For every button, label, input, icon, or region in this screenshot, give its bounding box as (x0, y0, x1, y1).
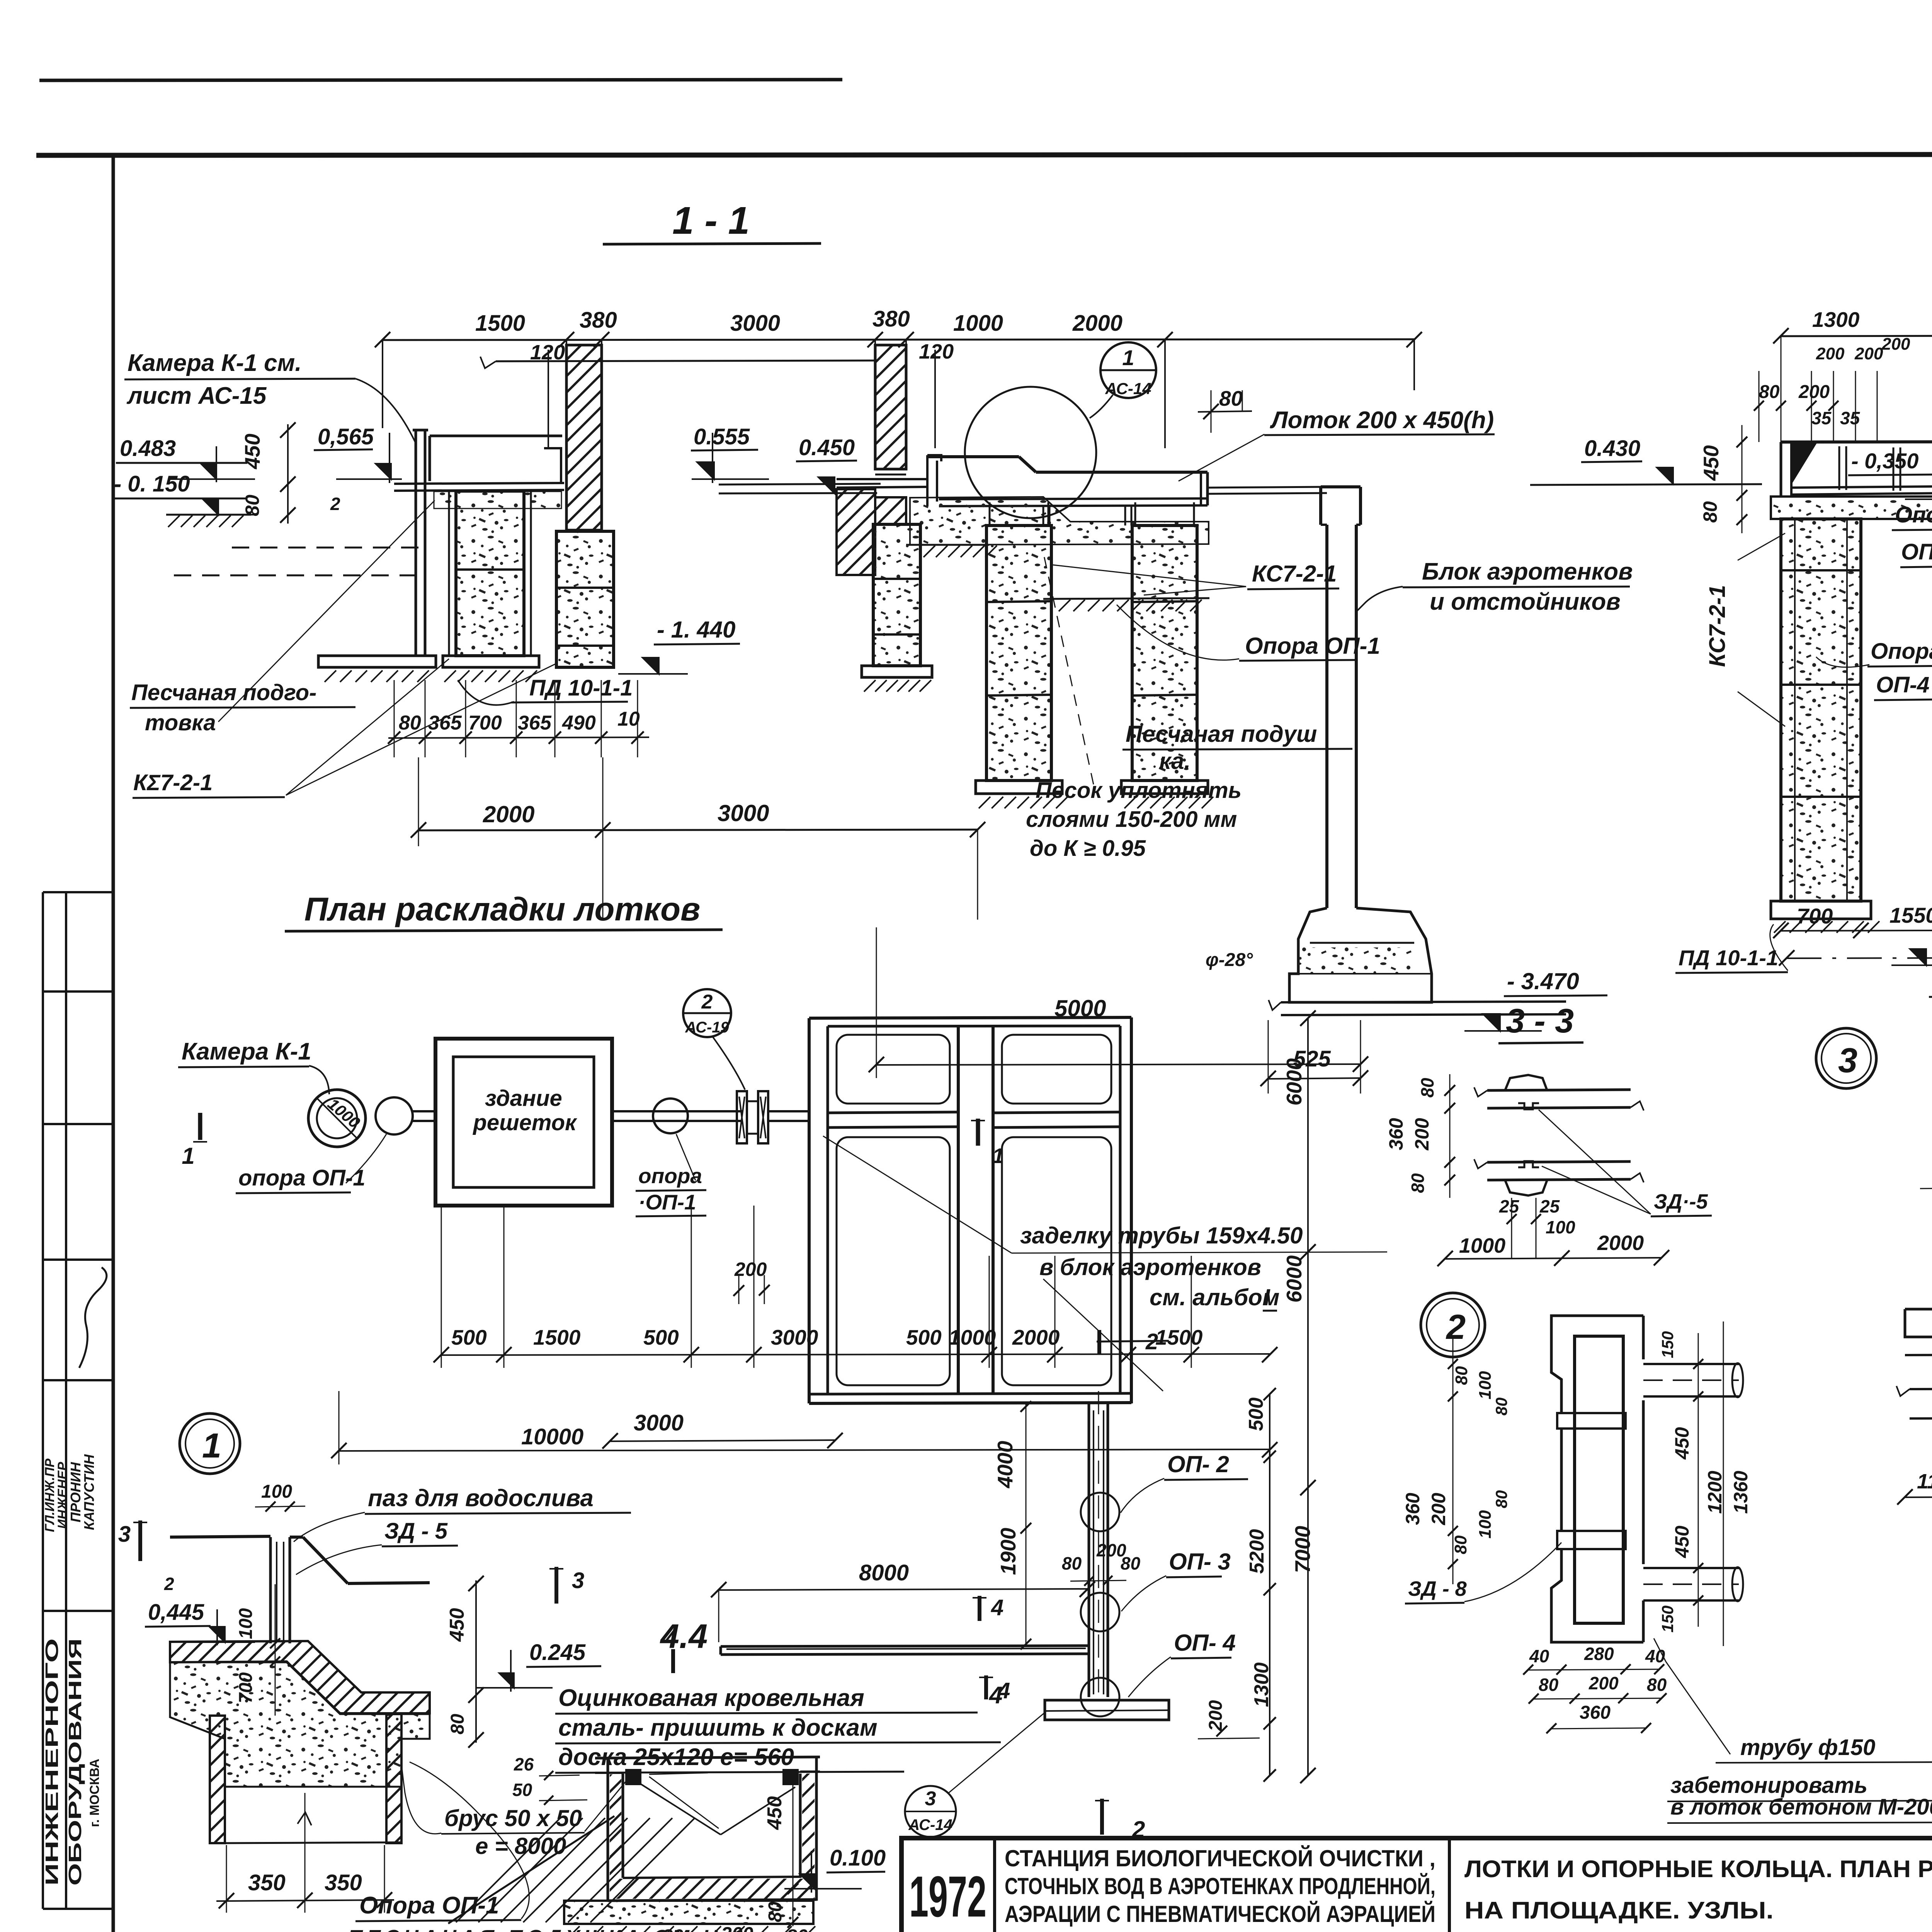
svg-text:- 0,350: - 0,350 (1851, 449, 1918, 473)
detail 1 right hatched wall (386, 1714, 401, 1843)
svg-text:лист АС-15: лист АС-15 (126, 383, 267, 409)
svg-text:1972: 1972 (909, 1864, 986, 1929)
svg-text:сталь- пришить к доскам: сталь- пришить к доскам (558, 1714, 878, 1741)
level mark 0.100 (784, 1845, 886, 1893)
svg-text:40: 40 (1645, 1646, 1665, 1666)
section mark 3 right (549, 1567, 584, 1604)
detail bubble 3 (1816, 1028, 1876, 1088)
section 4-4 title (660, 1617, 707, 1655)
svg-text:80: 80 (662, 1925, 684, 1932)
svg-text:ОП- 4: ОП- 4 (1174, 1630, 1236, 1656)
svg-text:4000: 4000 (993, 1440, 1017, 1488)
detail 1 concrete mass stipple (170, 1662, 430, 1787)
level mark -3.730 (1891, 949, 1932, 997)
section 1-1 top dimension chain (375, 306, 1422, 448)
svg-text:г. МОСКВА: г. МОСКВА (87, 1759, 102, 1827)
svg-text:450: 450 (1671, 1427, 1693, 1460)
channel tee footing (1045, 1700, 1169, 1720)
rotated label КС7-2-1 far left (1705, 533, 1785, 726)
svg-text:Песчаная подуш: Песчаная подуш (1126, 721, 1317, 747)
svg-text:2000: 2000 (483, 801, 534, 827)
svg-text:450: 450 (1671, 1526, 1693, 1558)
svg-text:6000: 6000 (1282, 1058, 1306, 1105)
detail 1 dims 350 350 (216, 1793, 394, 1913)
svg-text:здание: здание (485, 1086, 562, 1111)
svg-text:8000: 8000 (859, 1560, 909, 1585)
brick wall hatched left (566, 345, 602, 530)
detail 1 break mark bottom (225, 1812, 401, 1843)
svg-text:200: 200 (1588, 1673, 1619, 1693)
left stamp text ПРОНИН (68, 1462, 83, 1522)
title block grid (901, 1838, 1932, 1932)
svg-text:2000: 2000 (1597, 1231, 1644, 1255)
svg-text:80: 80 (1408, 1173, 1428, 1193)
svg-text:КΣ7-2-1: КΣ7-2-1 (133, 770, 213, 795)
svg-text:паз для водослива: паз для водослива (368, 1485, 594, 1512)
left stamp signature squiggle (79, 1267, 107, 1368)
svg-text:80: 80 (1062, 1553, 1082, 1573)
svg-text:Опора: Опора (1871, 639, 1932, 664)
label Лоток 200х450 (1179, 407, 1495, 481)
detail bubble 1 (180, 1413, 240, 1474)
slope note phi-28 (1206, 950, 1253, 970)
svg-text:450: 450 (446, 1608, 468, 1642)
label опора ОП-1 left (236, 1134, 386, 1193)
svg-text:2: 2 (701, 991, 713, 1013)
svg-text:ПД 10-1-1: ПД 10-1-1 (1679, 946, 1778, 970)
left stamp text ОБОРУДОВАНИЯ (65, 1638, 85, 1886)
channel width dims 80 200 80 (1062, 1540, 1141, 1586)
level mark -3.470 (1464, 968, 1607, 1031)
svg-text:200: 200 (1798, 382, 1830, 402)
svg-text:350: 350 (248, 1870, 286, 1895)
svg-text:- 1. 440: - 1. 440 (657, 617, 735, 643)
level mark 0.450 (719, 435, 877, 493)
svg-text:3: 3 (118, 1522, 131, 1547)
central support column under wall (862, 524, 932, 692)
svg-text:40: 40 (1529, 1646, 1549, 1666)
level mark 0.555 (691, 424, 769, 483)
svg-text:- 3.470: - 3.470 (1507, 968, 1579, 994)
svg-text:·ОП-1: ·ОП-1 (638, 1190, 696, 1214)
label ОП-2 (1121, 1451, 1248, 1513)
label ЗД-8 (1405, 1543, 1561, 1604)
svg-text:1: 1 (992, 1144, 1004, 1168)
svg-text:ОП- 3: ОП- 3 (1169, 1549, 1231, 1575)
svg-text:200: 200 (721, 1923, 753, 1932)
svg-text:План раскладки лотков: План раскладки лотков (304, 891, 701, 928)
label Опора ОП-3 (1892, 502, 1932, 657)
svg-text:4.4: 4.4 (660, 1617, 707, 1655)
svg-text:80: 80 (1492, 1398, 1510, 1416)
svg-text:80: 80 (1759, 382, 1780, 402)
left stamp text ГЛ.ИНЖ.ПР (43, 1459, 57, 1532)
plan dim 200 small (733, 1259, 770, 1304)
svg-text:1500: 1500 (475, 311, 525, 336)
level mark 0.483 (116, 436, 255, 482)
svg-text:1900: 1900 (996, 1527, 1020, 1575)
pipe building to tank (612, 1099, 743, 1133)
left stamp text КАПУСТИН (81, 1454, 97, 1530)
title block year 1972 (909, 1864, 986, 1929)
svg-text:1: 1 (182, 1143, 194, 1169)
left stamp text г.МОСКВА (87, 1759, 102, 1827)
svg-text:80: 80 (1417, 1078, 1437, 1098)
svg-text:АС-14: АС-14 (1105, 379, 1151, 398)
svg-text:Опора ОП-1: Опора ОП-1 (1245, 633, 1380, 659)
svg-text:0.483: 0.483 (120, 436, 176, 461)
plan title План раскладки лотков (285, 891, 723, 931)
svg-text:1150: 1150 (1917, 1470, 1932, 1493)
svg-text:ПЕСЧАНАЯ ПОДУШКА СМ Ч-1: ПЕСЧАНАЯ ПОДУШКА СМ Ч-1 (348, 1926, 748, 1932)
svg-text:доска 25х120 е= 560: доска 25х120 е= 560 (558, 1744, 794, 1770)
section mark 2 tank (1097, 1329, 1169, 1354)
trough floor posts (1043, 506, 1131, 526)
svg-text:ПД 10-1-1: ПД 10-1-1 (529, 675, 633, 701)
plan dim 10000 (331, 1391, 1277, 1464)
svg-text:Песчаная подго-: Песчаная подго- (131, 680, 316, 705)
svg-text:и отстойников: и отстойников (1430, 588, 1621, 615)
svg-text:АС-14: АС-14 (908, 1816, 952, 1833)
central brick wall hatched (837, 345, 906, 575)
svg-text:3: 3 (1838, 1041, 1857, 1080)
foundation base slab lines (1269, 1000, 1566, 1015)
svg-text:КС7-2-1: КС7-2-1 (1252, 561, 1337, 587)
section marks 4 (665, 1595, 1010, 1703)
svg-text:80: 80 (1219, 386, 1243, 410)
svg-text:10000: 10000 (521, 1424, 583, 1449)
svg-text:200: 200 (1816, 344, 1845, 363)
svg-text:КС7-2-1: КС7-2-1 (1705, 585, 1730, 667)
plan right dim chains (1198, 1010, 1316, 1783)
plan dim 3000 (602, 1410, 843, 1449)
detail 3 dims (1897, 1033, 1932, 1505)
svg-text:АС-19: АС-19 (685, 1019, 729, 1036)
trough cross-section section 2-2 (1781, 441, 1932, 497)
level mark 0.445 (145, 1600, 255, 1645)
label Песчаная подушка (1122, 721, 1352, 774)
svg-text:500: 500 (906, 1325, 942, 1349)
title block sheet name (1464, 1856, 1932, 1924)
svg-text:3000: 3000 (730, 311, 780, 336)
sheet frame left border (112, 155, 115, 1932)
dims 450 80 near 0.100 (764, 1772, 798, 1928)
svg-text:80: 80 (447, 1714, 468, 1735)
svg-text:φ-28°: φ-28° (1206, 950, 1253, 970)
plan bottom dim chain (434, 1206, 1277, 1368)
svg-text:500: 500 (643, 1325, 679, 1349)
svg-text:500: 500 (451, 1325, 487, 1349)
label брус 50х50 (401, 1762, 626, 1859)
svg-text:2: 2 (1446, 1308, 1466, 1347)
svg-text:е = 8000: е = 8000 (475, 1833, 566, 1859)
svg-text:1550: 1550 (1889, 903, 1932, 927)
label ОП-4 (1128, 1630, 1236, 1697)
section mark 1 left (182, 1113, 207, 1169)
svg-text:200: 200 (1411, 1118, 1433, 1151)
svg-text:6000: 6000 (1282, 1255, 1306, 1303)
note паз для водослива (294, 1485, 631, 1575)
support column under wall with stipple (556, 531, 614, 667)
svg-text:200: 200 (1206, 1700, 1226, 1731)
svg-text:ОП- 2: ОП- 2 (1167, 1451, 1229, 1477)
section 1-1 bottom small dims (388, 680, 649, 757)
detail 1 top surface and groove (170, 1536, 430, 1643)
svg-text:I: I (1264, 1284, 1270, 1310)
svg-text:2: 2 (330, 494, 340, 514)
svg-text:ЛОТКИ И ОПОРНЫЕ КОЛЬЦА. ПЛАН: ЛОТКИ И ОПОРНЫЕ КОЛЬЦА. ПЛАН РАСКЛАДКИ Л… (1464, 1856, 1932, 1883)
svg-text:700: 700 (236, 1672, 256, 1703)
section 3-3 dims (1385, 1074, 1669, 1266)
svg-text:280: 280 (1584, 1644, 1614, 1664)
svg-text:5200: 5200 (1246, 1529, 1268, 1574)
svg-text:1500: 1500 (533, 1325, 581, 1349)
section mark 3 top left (118, 1520, 174, 1594)
svg-text:1 - 1: 1 - 1 (672, 199, 750, 242)
section 2-2 top dims (1773, 308, 1932, 493)
svg-text:до К ≥ 0.95: до К ≥ 0.95 (1030, 836, 1146, 861)
level mark 0.565 (314, 424, 402, 514)
dim 80 near trough (1198, 386, 1252, 433)
dims 450 80 for 4-4 (446, 1576, 484, 1748)
svg-text:Опора: Опора (1895, 502, 1932, 527)
svg-text:4: 4 (991, 1595, 1003, 1620)
left stamp text ИНЖЕНЕР (55, 1462, 70, 1529)
svg-text:ИНЖЕНЕРНОГО: ИНЖЕНЕРНОГО (42, 1638, 62, 1886)
channel vertical dims (993, 1401, 1031, 1650)
vertical dim 450 80 left (240, 422, 296, 524)
svg-text:3000: 3000 (634, 1410, 684, 1435)
dim 8000 (711, 1560, 1095, 1642)
svg-text:заделку трубы 159х4.50: заделку трубы 159х4.50 (1020, 1223, 1303, 1248)
svg-text:80: 80 (1121, 1553, 1141, 1573)
svg-text:опора ОП-1: опора ОП-1 (238, 1165, 366, 1190)
svg-text:380: 380 (580, 308, 617, 333)
soil hatch under cushion (906, 545, 1209, 611)
wall slab pass-through lines (719, 469, 927, 488)
gate flange symbol (737, 1091, 768, 1143)
detail bubble 2 АС-19 (683, 989, 745, 1090)
detail 2 bottom dims (1523, 1644, 1667, 1733)
svg-text:100: 100 (236, 1608, 256, 1639)
svg-text:3000: 3000 (771, 1325, 818, 1349)
svg-text:200: 200 (1428, 1493, 1449, 1526)
note трубу ф150 забетонировать (1654, 1638, 1932, 1823)
svg-text:1000: 1000 (1459, 1234, 1505, 1257)
svg-text:120: 120 (919, 340, 954, 363)
detail 3 tee foundation (1896, 1045, 1932, 1418)
section 4-4 bottom dims (653, 1923, 813, 1932)
dim 2000 3000 bottom (411, 757, 985, 920)
svg-text:50: 50 (512, 1780, 532, 1800)
svg-text:1: 1 (202, 1427, 221, 1465)
svg-text:700: 700 (1797, 904, 1833, 928)
svg-text:в лоток бетоном М-200: в лоток бетоном М-200 (1670, 1794, 1932, 1820)
svg-text:0.450: 0.450 (799, 435, 855, 460)
svg-text:25: 25 (1539, 1196, 1560, 1216)
section 2-2 left small dims (1754, 335, 1910, 442)
section 3-3 trough rails (1474, 1087, 1644, 1182)
svg-text:25: 25 (1499, 1196, 1520, 1216)
level mark -1.440 (618, 617, 740, 674)
svg-text:0,445: 0,445 (148, 1600, 204, 1625)
detail 1 rotated dims 100 700 (236, 1584, 280, 1716)
trough 200x450 profile (927, 455, 1207, 506)
camera K-1 circles (308, 1090, 366, 1147)
detail boundary circle (965, 387, 1096, 518)
label Камера К-1 (178, 1038, 329, 1094)
support column OP-1 right (1121, 502, 1213, 808)
label Камера К-1 см. лист АС-15 (124, 350, 415, 442)
svg-text:7000: 7000 (1291, 1526, 1315, 1573)
section mark 2 bottom (1095, 1799, 1145, 1842)
svg-text:ка.: ка. (1159, 748, 1190, 774)
title block project name (1005, 1845, 1435, 1932)
building здание решеток (435, 1039, 612, 1206)
label ПЕСЧАНАЯ ПОДУШКА (348, 1926, 748, 1932)
svg-text:150: 150 (1658, 1605, 1677, 1633)
level mark -0.150 (113, 471, 255, 515)
svg-text:ПРОИЗВОДИТЕЛЬНОСТЬЮ 700 м³/сут: ПРОИЗВОДИТЕЛЬНОСТЬЮ 700 м³/сутки (1005, 1928, 1435, 1932)
svg-text:3000: 3000 (718, 800, 769, 826)
section 1-1 title (603, 199, 821, 244)
svg-text:Песок уплотнять: Песок уплотнять (1036, 778, 1242, 803)
svg-text:35: 35 (1811, 408, 1832, 428)
label ОП-3 (1121, 1549, 1231, 1611)
svg-text:200: 200 (1854, 344, 1883, 363)
svg-text:трубу ф150: трубу ф150 (1740, 1735, 1875, 1760)
svg-text:1: 1 (1122, 345, 1134, 370)
section mark 1 middle (971, 1119, 1004, 1168)
sand leader line (218, 500, 435, 722)
dim 525 (1260, 1020, 1368, 1094)
svg-text:0,565: 0,565 (318, 424, 374, 449)
svg-text:0.430: 0.430 (1584, 436, 1640, 461)
svg-text:ЗД·-5: ЗД·-5 (1654, 1190, 1708, 1213)
svg-text:Оцинкованая кровельная: Оцинкованая кровельная (558, 1685, 864, 1711)
section 4-4 channel (595, 1757, 820, 1901)
svg-text:см. альбом: см. альбом (1150, 1284, 1279, 1310)
svg-text:ОП-4: ОП-4 (1876, 672, 1929, 697)
svg-text:слоями 150-200 мм: слоями 150-200 мм (1026, 807, 1237, 832)
concrete prep slab stipple (1771, 495, 1932, 519)
support column KC7 with stipple (443, 491, 539, 682)
svg-text:500: 500 (1245, 1398, 1267, 1431)
svg-text:450: 450 (764, 1796, 786, 1830)
support ring at camera (376, 1097, 413, 1134)
label Опора ОП-1 detail (355, 1762, 529, 1921)
sand bedding stipple under basin (434, 492, 561, 509)
level mark -0.430 left (1530, 436, 1762, 485)
camera wall footing plate (318, 656, 436, 682)
svg-text:360: 360 (1385, 1118, 1407, 1150)
svg-text:АЭРАЦИИ С ПНЕВМАТИЧЕСКОЙ АЭРАЦ: АЭРАЦИИ С ПНЕВМАТИЧЕСКОЙ АЭРАЦИЕЙ (1005, 1901, 1435, 1927)
section 1-1 reference line with break (480, 357, 875, 368)
svg-text:ЗД - 5: ЗД - 5 (384, 1519, 448, 1544)
trough basin left of wall (394, 436, 564, 491)
detail 2 support ring plan (1551, 1316, 1743, 1642)
svg-text:10: 10 (617, 708, 640, 730)
svg-text:СТАНЦИЯ БИОЛОГИЧЕСКОЙ ОЧИСТКИ: СТАНЦИЯ БИОЛОГИЧЕСКОЙ ОЧИСТКИ , (1005, 1845, 1435, 1871)
detail bubble 3 АС-14 bottom (905, 1713, 1045, 1837)
label Блок аэротенков и отстойников (1356, 558, 1633, 615)
trough to wall link lines (1207, 487, 1327, 494)
svg-text:Опора ОП-1: Опора ОП-1 (359, 1892, 499, 1919)
vertical dims 450 80 left of trough (1699, 425, 1747, 533)
svg-text:Лоток 200 х 450(h): Лоток 200 х 450(h) (1270, 407, 1494, 434)
svg-text:товка: товка (145, 710, 216, 735)
svg-text:опора: опора (638, 1164, 702, 1188)
note Оцинкованная кровельная сталь (555, 1681, 1002, 1774)
svg-text:360: 360 (1402, 1493, 1423, 1525)
sand cushion stipple wedge (910, 497, 1209, 545)
svg-text:4: 4 (988, 1682, 1002, 1709)
svg-text:100: 100 (261, 1481, 292, 1502)
long channel 8000 (721, 1646, 1089, 1655)
svg-text:НА ПЛОЩАДКЕ. УЗЛЫ.: НА ПЛОЩАДКЕ. УЗЛЫ. (1464, 1897, 1774, 1924)
svg-text:490: 490 (562, 712, 596, 734)
svg-text:100: 100 (1476, 1510, 1495, 1539)
note Песок уплотнять слоями (1026, 553, 1242, 861)
svg-text:150: 150 (1658, 1331, 1677, 1358)
aerotank block plan (809, 1017, 1131, 1403)
svg-text:80: 80 (1451, 1535, 1470, 1554)
svg-text:450: 450 (1699, 445, 1723, 481)
svg-text:2000: 2000 (1072, 311, 1122, 336)
svg-text:2: 2 (1132, 1816, 1145, 1842)
detail 1 hatched slab (170, 1641, 430, 1713)
svg-text:1000: 1000 (953, 311, 1003, 336)
svg-text:450: 450 (240, 434, 264, 469)
svg-text:100: 100 (1476, 1371, 1495, 1400)
svg-text:2000: 2000 (1012, 1325, 1060, 1349)
ground line with soil hatch (166, 515, 251, 527)
svg-text:360: 360 (1580, 1702, 1611, 1723)
label КС7-2-1 middle (1053, 561, 1339, 595)
support column OP-1 left (976, 502, 1068, 808)
groundwater dashed lines (174, 548, 426, 575)
section 4-4 base slab (564, 1901, 815, 1932)
svg-text:80: 80 (1699, 501, 1721, 523)
aerotank block wall (1321, 487, 1361, 908)
svg-text:в блок аэротенков: в блок аэротенков (1039, 1254, 1261, 1280)
svg-text:1300: 1300 (1812, 308, 1860, 332)
dims 26 50 (512, 1754, 587, 1805)
svg-text:80: 80 (1647, 1675, 1667, 1695)
scan artifact line top-left (39, 80, 842, 80)
label Опора ОП-4 (1816, 639, 1932, 700)
label ПД 10-1-1 left (458, 675, 633, 705)
left stamp strip grid (43, 892, 113, 1909)
label опора ОП-1 right (636, 1134, 706, 1216)
detail 2 dims (1402, 1321, 1752, 1646)
svg-text:Камера К-1: Камера К-1 (182, 1038, 311, 1065)
section 3-3 title (1498, 1002, 1583, 1043)
detail 1 left hatched wall (210, 1716, 225, 1843)
aerotank wall foundation block (1289, 908, 1432, 1002)
level mark 0.245 (475, 1640, 601, 1692)
svg-text:- 0. 150: - 0. 150 (114, 471, 190, 497)
svg-text:1300: 1300 (1250, 1662, 1273, 1707)
svg-text:80: 80 (765, 1901, 786, 1922)
svg-text:100: 100 (1546, 1217, 1575, 1237)
svg-text:0.555: 0.555 (694, 424, 750, 449)
svg-text:3 - 3: 3 - 3 (1506, 1002, 1574, 1040)
svg-text:700: 700 (468, 712, 502, 734)
svg-text:80: 80 (1452, 1366, 1471, 1385)
note заделку трубы (823, 1136, 1387, 1391)
svg-text:Блок аэротенков: Блок аэротенков (1422, 558, 1633, 585)
